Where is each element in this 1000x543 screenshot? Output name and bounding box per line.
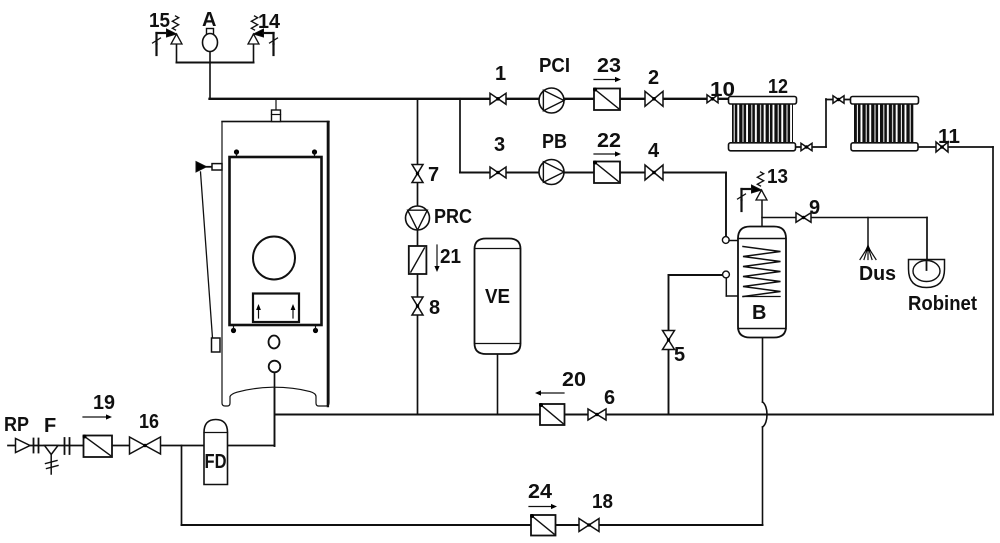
svg-text:A: A [202, 9, 216, 31]
svg-text:PCI: PCI [539, 55, 570, 77]
svg-text:15: 15 [149, 10, 170, 32]
svg-text:12: 12 [768, 76, 788, 98]
svg-text:RP: RP [4, 414, 29, 436]
svg-text:10: 10 [710, 79, 735, 101]
svg-text:FD: FD [205, 451, 227, 473]
svg-text:11: 11 [938, 126, 960, 148]
svg-text:PRC: PRC [434, 206, 472, 228]
svg-text:F: F [44, 415, 56, 437]
svg-text:7: 7 [428, 164, 439, 186]
svg-text:5: 5 [674, 344, 685, 366]
svg-text:8: 8 [429, 297, 440, 319]
svg-text:23: 23 [597, 55, 621, 77]
svg-text:14: 14 [258, 11, 281, 33]
svg-text:2: 2 [648, 67, 659, 89]
svg-text:20: 20 [562, 369, 586, 391]
svg-text:16: 16 [139, 411, 159, 433]
svg-text:VE: VE [485, 286, 510, 308]
svg-text:18: 18 [592, 491, 613, 513]
svg-text:4: 4 [648, 140, 660, 162]
svg-text:24: 24 [528, 481, 553, 503]
svg-text:22: 22 [597, 130, 621, 152]
svg-text:PB: PB [542, 131, 567, 153]
svg-text:21: 21 [440, 246, 461, 268]
svg-text:Dus: Dus [859, 263, 896, 285]
svg-text:B: B [752, 302, 766, 324]
svg-text:Robinet: Robinet [908, 293, 977, 315]
svg-text:3: 3 [494, 134, 505, 156]
svg-text:6: 6 [604, 387, 615, 409]
svg-text:1: 1 [495, 63, 506, 85]
svg-text:19: 19 [93, 392, 115, 414]
svg-text:13: 13 [767, 166, 788, 188]
svg-text:9: 9 [809, 197, 820, 219]
